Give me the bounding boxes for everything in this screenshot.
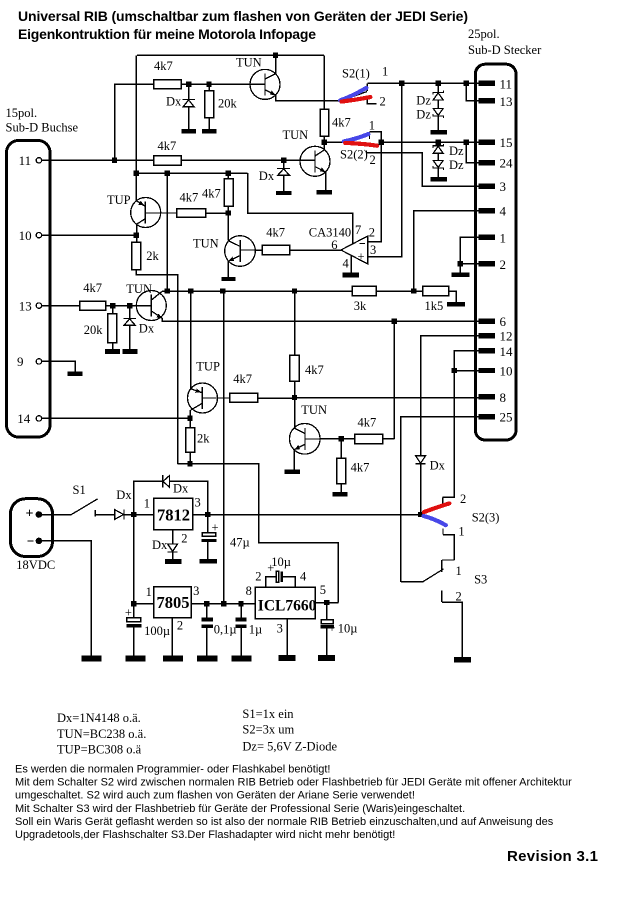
svg-text:TUN: TUN <box>283 128 309 142</box>
svg-text:10µ: 10µ <box>338 621 358 635</box>
diode D7 Dx <box>416 456 446 473</box>
ground S3 <box>454 657 471 662</box>
transistor Q2 TUN <box>283 128 331 176</box>
J2 pin 10 <box>479 368 495 373</box>
wire R7 bottom elbow <box>136 270 177 464</box>
wire R10 to T4 base <box>256 249 263 251</box>
node pin10 link junction <box>452 368 457 373</box>
wire D4 to 7812 <box>124 514 154 516</box>
transistor Q7 TUP <box>188 360 230 414</box>
svg-text:47µ: 47µ <box>230 535 250 549</box>
svg-text:2: 2 <box>370 153 376 167</box>
ground below R2 <box>202 129 217 133</box>
svg-text:4k7: 4k7 <box>305 363 324 377</box>
wire TUP2 collector <box>189 410 191 418</box>
zener Dz2 <box>416 100 443 130</box>
wire T2 emitter to ground <box>325 172 327 190</box>
svg-text:1µ: 1µ <box>249 622 262 636</box>
wire bypass right down <box>170 481 208 514</box>
wire T4 emitter to ground <box>227 261 229 277</box>
resistor R2 20k <box>208 87 210 91</box>
wire 3k to 1k5 <box>376 290 422 292</box>
svg-text:Dz: Dz <box>416 94 431 108</box>
wire minus terminal down <box>42 541 91 656</box>
J2 pin 14 <box>479 348 495 353</box>
blue wire S2(3) <box>424 516 446 525</box>
node T3 collector junction <box>165 288 170 293</box>
wire S3 pin2 to ground <box>442 602 462 657</box>
svg-text:0,1µ: 0,1µ <box>214 622 237 636</box>
svg-text:9: 9 <box>17 354 24 369</box>
svg-text:1: 1 <box>382 65 388 79</box>
J1 pin 9 <box>36 359 41 364</box>
wire 12V left vertical <box>135 55 137 200</box>
wire T2 base row <box>181 159 315 161</box>
wire T1 emitter to S2(1) <box>276 95 341 101</box>
resistor R3 4k7 <box>154 156 182 165</box>
svg-text:20k: 20k <box>218 97 238 111</box>
resistor R13 4k7 vertical <box>290 291 324 398</box>
wire pin14 row <box>42 417 190 419</box>
node 7805 input junction <box>131 601 136 606</box>
switch S2(3) <box>421 492 500 538</box>
svg-text:Es werden die normalen Program: Es werden die normalen Programmier- oder… <box>15 764 331 776</box>
node S2(3) common junction <box>418 512 423 517</box>
svg-text:4: 4 <box>500 204 507 219</box>
node pin6 junction <box>392 318 397 323</box>
connector 18VDC battery <box>11 499 56 572</box>
capacitor C3 0,1u <box>202 604 237 656</box>
ground T5 emitter <box>285 470 301 474</box>
J2 pin 6 <box>479 318 495 323</box>
J1 pin 11 <box>36 158 41 163</box>
switch S1 <box>71 483 97 517</box>
J2 pin 3 <box>479 184 495 189</box>
wire pin14 link <box>454 351 478 371</box>
svg-text:3k: 3k <box>354 299 367 313</box>
node Dz chain1 junction <box>436 81 441 86</box>
svg-text:S3: S3 <box>474 572 487 586</box>
node 7812 input junction <box>131 512 136 517</box>
svg-text:S1: S1 <box>73 483 86 497</box>
node 47u junction <box>205 512 210 517</box>
node 1u junction <box>238 601 243 606</box>
svg-text:1: 1 <box>456 564 462 578</box>
wire 12V second rail <box>136 172 247 174</box>
switch S2(2) <box>340 119 376 168</box>
svg-text:Dz= 5,6V Z-Diode: Dz= 5,6V Z-Diode <box>242 740 337 754</box>
connector J2 25pol Sub-D Stecker body <box>475 64 516 440</box>
node T5 base junction <box>339 436 344 441</box>
ground R17 <box>333 492 348 497</box>
wire pin15 row <box>381 141 478 143</box>
converter U4 ICL7660 <box>246 570 326 636</box>
wire T1 collector <box>275 55 277 74</box>
svg-text:Mit Schalter S3 wird der Flash: Mit Schalter S3 wird der Flashbetrieb fü… <box>15 803 465 815</box>
resistor R9 20k <box>84 308 117 349</box>
wire pin12 link <box>421 336 479 456</box>
svg-text:1: 1 <box>146 585 152 599</box>
node T5 collector junction <box>292 395 297 400</box>
node R4/T2 collector junction <box>322 140 327 145</box>
ground pin9 <box>68 371 83 376</box>
svg-text:4: 4 <box>300 570 307 584</box>
blue wire S2(2) <box>344 134 369 141</box>
node minus input junction <box>379 140 384 145</box>
wire pin 4 link <box>414 211 479 291</box>
regulator U3 7805 <box>146 584 200 632</box>
ground 1k5 <box>447 302 465 306</box>
wire ICL pin5 <box>315 602 338 604</box>
node ICL pin5 junction <box>324 600 329 605</box>
red wire S2(2) <box>345 143 377 146</box>
svg-text:5: 5 <box>320 583 326 597</box>
node R13 top junction <box>292 288 297 293</box>
svg-text:1: 1 <box>500 230 507 245</box>
ground below D1 <box>181 129 196 133</box>
wire 5V output row <box>191 603 255 605</box>
J2 pin 12 <box>479 333 495 338</box>
wire T5 base row <box>320 438 355 440</box>
node 0,1u junction <box>204 601 209 606</box>
ground 7812 pin2 <box>165 559 181 564</box>
capacitor C5 10u pump <box>266 555 296 587</box>
node R5 bottom junction <box>226 210 231 215</box>
svg-text:8: 8 <box>500 390 507 405</box>
wire plus terminal to S1 <box>42 514 71 516</box>
J2 pin 11 <box>479 81 495 86</box>
transistor Q3 TUN <box>126 282 166 321</box>
wire R6 right to R5 bottom <box>206 212 229 214</box>
wire minus5V row <box>178 464 339 603</box>
resistor R15 2k <box>186 418 211 464</box>
svg-text:1k5: 1k5 <box>425 299 444 313</box>
zener Dz3 <box>433 144 464 158</box>
svg-text:Dx: Dx <box>166 95 182 109</box>
svg-text:TUN=BC238 o.ä.: TUN=BC238 o.ä. <box>57 727 146 741</box>
node T1 collector junction <box>273 53 278 58</box>
wire S2(1) pin1 row to pin 11 <box>367 82 478 84</box>
J2 pin 25 <box>479 414 495 419</box>
wire pins 1+2 ground link <box>460 237 479 264</box>
svg-text:1: 1 <box>369 119 375 133</box>
svg-text:4k7: 4k7 <box>358 415 377 429</box>
ground 100u <box>125 655 145 661</box>
diode D4 Dx <box>115 488 133 520</box>
ground pins 1+2 <box>451 273 469 277</box>
node D3 junction <box>127 303 132 308</box>
svg-text:Mit dem Schalter S2 wird zwisc: Mit dem Schalter S2 wird zwischen normal… <box>15 777 572 789</box>
wire pin10 row <box>42 234 137 236</box>
resistor R6 4k7 <box>177 209 206 218</box>
svg-text:4k7: 4k7 <box>351 461 370 475</box>
wire opamp plus input vertical <box>368 83 402 257</box>
svg-text:Dx: Dx <box>430 458 446 472</box>
node 20k R9 junction <box>110 303 115 308</box>
wire D7 to 12V rail <box>420 464 422 515</box>
svg-text:10: 10 <box>500 363 513 378</box>
wire 7812 input down to 7805 <box>133 515 135 604</box>
svg-text:14: 14 <box>500 344 514 359</box>
wire 7812 output rail <box>193 514 421 516</box>
wire T2 collector <box>323 142 325 150</box>
wire S2(3) pin1 down to S3 <box>443 535 454 560</box>
wire 12V top rail <box>137 54 324 56</box>
svg-text:1: 1 <box>458 524 464 538</box>
svg-text:4k7: 4k7 <box>233 372 252 386</box>
wire T3 collector feed vertical <box>166 173 168 291</box>
svg-text:3: 3 <box>500 179 507 194</box>
wire pin11 row <box>42 159 154 161</box>
svg-text:10: 10 <box>19 228 32 243</box>
svg-text:2k: 2k <box>146 249 159 263</box>
svg-text:4k7: 4k7 <box>83 281 102 295</box>
node 12V rail T3 feed junction <box>165 171 170 176</box>
resistor R17 4k7 vertical <box>337 439 370 492</box>
ground minus <box>81 655 101 661</box>
regulator U2 7812 <box>144 495 201 545</box>
svg-text:S2=3x um: S2=3x um <box>242 723 294 737</box>
svg-text:2: 2 <box>369 225 375 239</box>
resistor R7 2k <box>132 242 141 270</box>
resistor R11 3k <box>352 286 376 295</box>
svg-text:4k7: 4k7 <box>180 191 199 205</box>
wire pin10 link <box>454 370 478 372</box>
svg-text:4k7: 4k7 <box>202 187 221 201</box>
wire S1 to D4 <box>95 514 115 516</box>
svg-text:Dx: Dx <box>259 169 275 183</box>
svg-text:Upgradetools,der Flashschalter: Upgradetools,der Flashschalter S3.Der Fl… <box>15 829 395 841</box>
J2 pin 2 <box>479 261 495 266</box>
node pin13 branch junction <box>464 81 469 86</box>
svg-text:TUP: TUP <box>107 193 131 207</box>
svg-text:12: 12 <box>500 329 513 344</box>
ground 47u <box>199 559 217 563</box>
svg-text:2: 2 <box>255 570 261 584</box>
wire S2(2) pin2 to pin 3 <box>367 153 479 187</box>
transistor Q5 TUN <box>290 403 328 454</box>
wire T3 emitter / pin6 row <box>162 318 479 321</box>
svg-text:2: 2 <box>181 532 187 546</box>
svg-text:7: 7 <box>355 223 361 237</box>
resistor R8 4k7 <box>80 301 106 310</box>
svg-text:Dx=1N4148 o.ä.: Dx=1N4148 o.ä. <box>57 711 141 725</box>
blue wire S2(1) <box>340 88 366 101</box>
svg-text:4k7: 4k7 <box>158 139 177 153</box>
svg-text:Dz: Dz <box>449 144 464 158</box>
svg-text:Sub-D Buchse: Sub-D Buchse <box>6 121 79 135</box>
wire pin8 row <box>295 397 479 399</box>
svg-text:8: 8 <box>246 584 252 598</box>
diode D2 Dx <box>283 163 285 168</box>
resistor R5 4k7 vertical <box>202 173 233 213</box>
svg-text:7812: 7812 <box>157 506 190 525</box>
red wire S2(3) <box>424 503 449 512</box>
svg-text:Dx: Dx <box>173 482 189 496</box>
ground below R9 <box>105 349 120 354</box>
wire 1k5 to ground <box>449 291 457 302</box>
svg-text:S2(3): S2(3) <box>472 510 500 524</box>
svg-text:Eigenkontruktion für meine Mot: Eigenkontruktion für meine Motorola Info… <box>18 26 316 42</box>
svg-text:TUN: TUN <box>126 282 152 296</box>
svg-text:4k7: 4k7 <box>266 225 285 239</box>
J1 pin 10 <box>36 233 41 238</box>
svg-text:3: 3 <box>277 621 283 635</box>
node pin4 branch junction <box>411 288 416 293</box>
svg-text:S2(2): S2(2) <box>340 148 368 162</box>
node pin11 junction <box>112 158 117 163</box>
node pins 1+2 junction <box>457 261 462 266</box>
svg-text:11: 11 <box>500 76 513 91</box>
wire 7812 pin2 down <box>172 530 174 544</box>
svg-text:+: + <box>358 250 365 264</box>
svg-text:Dx: Dx <box>152 538 168 552</box>
wire 12V rail to op-amp pin7 <box>248 173 353 244</box>
capacitor C6 10u output <box>321 603 358 656</box>
wire pins14+10 down to S2(3) pin2 <box>443 371 455 498</box>
svg-text:Dz: Dz <box>416 108 431 122</box>
J2 pin 13 <box>479 98 495 103</box>
J2 pin 15 <box>479 140 495 145</box>
wire 7805 pin2 ground <box>171 618 173 656</box>
node D2 junction <box>281 158 286 163</box>
J1 pin 13 <box>36 303 41 308</box>
wire T5 emitter <box>293 450 295 470</box>
svg-text:Dx: Dx <box>116 488 132 502</box>
ground below T4 <box>221 277 235 281</box>
wire T4 collector <box>227 213 229 241</box>
svg-text:2k: 2k <box>197 432 210 446</box>
transistor Q4 TUN <box>193 236 256 267</box>
svg-text:2: 2 <box>500 257 507 272</box>
transistor Q1 TUN <box>236 56 280 100</box>
svg-text:S1=1x ein: S1=1x ein <box>242 707 294 721</box>
wire opamp output row <box>290 249 341 251</box>
J2 pin 4 <box>479 208 495 213</box>
zener Dz1 <box>416 86 443 108</box>
svg-text:TUP=BC308 o.ä: TUP=BC308 o.ä <box>57 743 142 757</box>
diode D6 Dx <box>152 538 178 559</box>
resistor R16 4k7 <box>355 434 383 443</box>
ground below D3 <box>122 349 137 354</box>
wire S2(2) pin1 link <box>369 132 381 143</box>
resistor R1 4k7 <box>154 80 182 89</box>
node Dz chain2 junction <box>436 140 441 145</box>
svg-text:7805: 7805 <box>157 593 190 612</box>
svg-text:25pol.: 25pol. <box>468 27 500 41</box>
wire pin25 link <box>401 417 479 582</box>
svg-text:3: 3 <box>193 584 199 598</box>
svg-text:+: + <box>26 507 34 522</box>
switch S2(1) <box>341 65 389 109</box>
capacitor C4 1u <box>236 604 263 656</box>
svg-text:15pol.: 15pol. <box>6 106 38 120</box>
svg-text:S2(1): S2(1) <box>342 67 370 81</box>
ground below T2 <box>316 190 332 194</box>
ground 0,1u <box>197 655 217 661</box>
wire R16 right elbow <box>383 438 395 440</box>
wire bypass up left <box>134 481 163 514</box>
node 12V rail TUP1 junction <box>134 171 139 176</box>
svg-text:2: 2 <box>460 492 466 506</box>
diode D1 Dx <box>188 87 190 99</box>
J1 pin 14 <box>36 416 41 421</box>
wire pin 13 link <box>466 83 478 101</box>
node pin10 junction <box>134 233 139 238</box>
resistor R10 4k7 <box>262 245 290 254</box>
svg-text:TUN: TUN <box>301 403 327 417</box>
svg-text:4k7: 4k7 <box>332 116 351 130</box>
svg-text:18VDC: 18VDC <box>16 558 55 572</box>
J2 pin 24 <box>479 160 495 165</box>
svg-text:2: 2 <box>456 589 462 603</box>
wire pin6 junction vertical <box>393 321 395 439</box>
svg-text:6: 6 <box>500 314 507 329</box>
svg-text:100µ: 100µ <box>144 624 170 638</box>
svg-text:3: 3 <box>370 243 376 257</box>
node 12V rail R5 junction <box>226 171 231 176</box>
red wire S2(1) <box>342 97 371 102</box>
wire pin13 row <box>42 305 80 307</box>
wire TUP1 collector <box>136 224 138 242</box>
svg-text:Universal RIB (umschaltbar zum: Universal RIB (umschaltbar zum flashen v… <box>18 8 468 24</box>
svg-text:2: 2 <box>380 95 386 109</box>
svg-text:TUP: TUP <box>196 360 220 374</box>
ground ICL pin3 <box>279 655 296 661</box>
svg-text:Sub-D Stecker: Sub-D Stecker <box>468 43 542 57</box>
svg-text:1: 1 <box>144 497 150 511</box>
wire R14 right to T5 collector junction <box>258 397 295 399</box>
wire 7805 input <box>134 603 154 605</box>
ground 10u <box>318 655 335 661</box>
wire opamp pin4 to ground <box>350 255 352 272</box>
wire 3k row <box>162 290 352 292</box>
svg-text:20k: 20k <box>84 323 104 337</box>
J2 pin 1 <box>479 235 495 240</box>
svg-text:13: 13 <box>19 299 32 314</box>
svg-text:Revision 3.1: Revision 3.1 <box>507 848 598 865</box>
wire R1 left to corner <box>115 84 154 160</box>
svg-text:25: 25 <box>500 410 513 425</box>
diode D5 Dx bypass <box>163 475 189 495</box>
svg-text:10µ: 10µ <box>271 555 291 569</box>
resistor R4 4k7 <box>320 109 329 136</box>
svg-text:11: 11 <box>19 153 32 168</box>
resistor R12 1k5 <box>423 286 449 295</box>
node pin24 branch junction <box>464 140 469 145</box>
node TUP2 emitter junction <box>188 288 193 293</box>
svg-text:2: 2 <box>177 618 183 632</box>
svg-text:4: 4 <box>343 257 350 271</box>
node 20k R2 junction <box>206 82 211 87</box>
resistor R14 4k7 <box>230 393 258 402</box>
svg-text:TUN: TUN <box>236 56 262 70</box>
svg-text:15: 15 <box>500 135 513 150</box>
svg-text:Soll ein Waris Gerät geflasht: Soll ein Waris Gerät geflasht werden so … <box>15 816 554 828</box>
capacitor C1 47u <box>201 515 249 559</box>
connector J1 15pol Sub-D Buchse body <box>7 141 51 438</box>
wire opamp minus input vertical <box>368 142 382 241</box>
wire pin 24 link <box>466 142 478 163</box>
svg-text:Dz: Dz <box>449 158 464 172</box>
node pin14 junction <box>187 416 192 421</box>
node 5V vertical junction <box>221 601 226 606</box>
svg-text:ICL7660: ICL7660 <box>258 598 317 615</box>
wire R4 feed vertical <box>323 55 325 109</box>
wire pin9 to ground <box>42 361 75 371</box>
svg-text:4k7: 4k7 <box>154 59 173 73</box>
ground 7805 <box>163 655 183 661</box>
